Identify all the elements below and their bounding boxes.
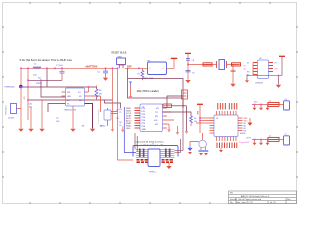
power +BATT T symbol <box>171 57 177 59</box>
connector J3 small <box>182 90 188 99</box>
capacitor C7 <box>61 68 63 80</box>
pin labels U2 left <box>126 108 132 130</box>
svg-text:Program MP: Program MP <box>239 142 250 144</box>
svg-text:TYPE-C: TYPE-C <box>149 171 157 173</box>
pins U3 left <box>253 63 258 75</box>
pin labels J2 right red <box>162 160 174 162</box>
resistor R12 <box>268 137 279 141</box>
resistor R2 <box>141 68 143 80</box>
wire JP1 to VCC <box>167 59 175 69</box>
wire row2 <box>252 139 284 141</box>
svg-text:C7 104: C7 104 <box>56 65 63 67</box>
pins U4 right <box>238 118 243 131</box>
power +3V3 T symbol <box>185 52 191 54</box>
power arrow pale 1 <box>112 103 114 129</box>
svg-text:1k: 1k <box>269 101 271 103</box>
sheet border frame <box>3 3 297 204</box>
diode D1 <box>129 82 132 86</box>
junction dot <box>105 68 107 70</box>
IC U4 MCU <box>214 115 238 137</box>
capacitor C9 <box>186 70 191 72</box>
ground <box>103 78 108 81</box>
wire Q2 left <box>190 142 199 146</box>
svg-text:UD-: UD- <box>243 68 247 70</box>
ground MCU bottom <box>220 148 222 150</box>
wire entries from U2 down <box>135 133 137 152</box>
svg-text:SWDIO: SWDIO <box>240 133 246 135</box>
wire vertical main left <box>20 68 22 128</box>
svg-text:2: 2 <box>163 68 164 70</box>
pins J2 right <box>160 150 175 158</box>
capacitor C10 <box>231 70 236 72</box>
junction dots left <box>20 68 63 101</box>
ground <box>90 129 95 132</box>
resistor R5 <box>163 104 172 108</box>
pin labels U4 bottom red <box>217 143 237 149</box>
ground <box>230 84 235 87</box>
svg-text:C7: C7 <box>285 134 287 136</box>
wire dark mid horizontal <box>105 100 121 108</box>
transistor Q1 <box>104 110 111 120</box>
pin names U2 inside <box>142 108 160 131</box>
IC U2 <box>140 104 163 132</box>
wire branch x48 <box>48 104 66 113</box>
svg-text:R2: R2 <box>138 74 140 76</box>
junction dot <box>88 86 90 88</box>
wires U4 left <box>196 118 210 123</box>
svg-text:V3: V3 <box>275 62 277 64</box>
svg-text:1M: 1M <box>99 93 102 95</box>
wire dark branch x41 <box>41 80 66 97</box>
grounds Q2 <box>199 153 203 155</box>
wire branch x47 <box>46 68 48 87</box>
svg-text:5V0: 5V0 <box>254 102 257 104</box>
svg-text:Sh.: Sh. <box>230 202 233 204</box>
pins U2 left <box>135 108 141 128</box>
wire vertical x117 <box>118 68 134 160</box>
junction dot <box>187 64 189 66</box>
wire dark net A horizontal <box>28 79 62 81</box>
svg-text:DC055: DC055 <box>8 118 15 120</box>
capacitor Cb <box>203 150 208 151</box>
svg-text:SI230: SI230 <box>100 125 106 127</box>
resistor R3 <box>95 87 98 99</box>
junction dot <box>138 68 140 70</box>
net labels U4 right <box>0 0 1 1</box>
crystal X1 <box>217 61 227 68</box>
svg-text:C6: C6 <box>285 99 287 101</box>
wire U2 gnd down right <box>167 124 169 130</box>
wire U1 gnd down <box>72 106 74 129</box>
svg-text:1: 1 <box>150 68 151 70</box>
svg-text:C8: C8 <box>192 60 194 62</box>
ground J2 <box>168 163 170 167</box>
junction dots <box>199 117 201 119</box>
svg-text:U4: U4 <box>216 118 218 120</box>
wire dark net B horizontal <box>21 86 97 88</box>
wire U3 bottom rail <box>247 57 282 85</box>
svg-text:PWRJACK: PWRJACK <box>5 105 8 115</box>
svg-text:GND: GND <box>67 96 72 98</box>
pin name smears vertical left <box>140 149 144 158</box>
junction dots <box>112 68 114 70</box>
svg-text:J2: J2 <box>152 144 154 146</box>
ground <box>18 129 23 132</box>
power arrow pale b <box>177 126 179 132</box>
ground <box>276 85 281 88</box>
node PWR05DC port <box>19 85 22 88</box>
ground <box>245 80 249 82</box>
wire top entries left <box>124 107 136 153</box>
wire vertical x31 <box>30 107 32 129</box>
connector J1 power jack <box>11 104 17 114</box>
wire crystal right <box>227 65 234 84</box>
ground <box>185 80 190 83</box>
power T symbol right <box>279 55 285 57</box>
wire top entries right <box>175 100 184 153</box>
title block <box>229 191 297 204</box>
red arrow marker <box>248 118 252 125</box>
inductor L1 <box>33 67 41 69</box>
wire note box outline <box>128 79 184 99</box>
svg-text:GND: GND <box>142 129 147 131</box>
pins U4 top <box>217 111 237 115</box>
wire Q2 top <box>202 133 204 140</box>
ground <box>39 129 44 132</box>
wire vertical x28 <box>27 68 29 120</box>
connector J2 outline <box>133 146 178 153</box>
op-amp U1 regulator <box>66 88 85 106</box>
grounds row2 <box>255 140 268 143</box>
svg-text:5 AU (5a 5a) 0.1A variant. Th: 5 AU (5a 5a) 0.1A variant. This is 15UF … <box>20 58 73 62</box>
resistor R11 <box>268 102 279 106</box>
pins J2 left <box>136 150 149 158</box>
svg-text:5 (wh) all 3.35 50/14.2+0.5ma: 5 (wh) all 3.35 50/14.2+0.5ma <box>135 141 165 143</box>
junction dot <box>278 75 280 77</box>
svg-text:ABILITY OF KiCad E.D.A. rev: ABILITY OF KiCad E.D.A. rev 5 <box>241 195 270 198</box>
resistor R9 <box>203 63 212 66</box>
wire +BATT main horizontal <box>21 67 118 69</box>
net labels col <box>119 109 122 127</box>
pin name smears vertical right <box>166 149 170 158</box>
svg-text:PWR: PWR <box>36 83 41 85</box>
svg-text:Size A4: Size A4 <box>230 198 238 201</box>
pin labels J2 left red <box>137 160 148 162</box>
grounds row1 <box>255 105 268 108</box>
svg-text:Title of Project sensor pcb: Title of Project sensor pcb <box>238 198 262 201</box>
ground <box>188 152 192 154</box>
svg-text:OUT1: OUT1 <box>246 137 251 139</box>
capacitor C12 <box>284 136 290 145</box>
wire vertical x112 <box>112 68 114 103</box>
wire vertical x42 <box>41 100 43 129</box>
pins U4 bottom <box>217 137 237 142</box>
wire Q2 bottom leads <box>201 147 205 150</box>
capacitor C11 <box>284 101 290 110</box>
pins U4 left <box>210 118 215 133</box>
ground <box>70 129 75 132</box>
svg-text:1k: 1k <box>269 136 271 138</box>
svg-text:ME6211C33: ME6211C33 <box>65 109 77 111</box>
net labels U3 left <box>243 62 250 76</box>
wire U2 right bus <box>163 106 192 131</box>
svg-text:Id: 1/1: Id: 1/1 <box>270 202 276 204</box>
wire net C horizontal <box>28 99 113 101</box>
pins U2 right <box>163 108 175 128</box>
power arrow pale a <box>167 130 171 133</box>
svg-text:R6: R6 <box>194 118 196 120</box>
transistor Q2 <box>199 140 207 148</box>
svg-text:RESET BULB: RESET BULB <box>112 52 127 55</box>
power arrow pale 2 <box>122 126 124 130</box>
power T symbol MCU <box>197 103 203 105</box>
resistor R6 <box>190 116 193 123</box>
wire U1 out up <box>88 87 90 92</box>
svg-text:GND: GND <box>126 128 131 130</box>
svg-text:C9: C9 <box>192 72 194 74</box>
wire U2 out up <box>167 96 183 108</box>
svg-text:UD+: UD+ <box>243 65 247 67</box>
svg-text:CH340N: CH340N <box>255 83 263 85</box>
wire row1 <box>252 104 284 106</box>
svg-text:PWR05DC: PWR05DC <box>5 87 16 89</box>
svg-text:Rev: Rev <box>287 199 291 201</box>
power arrow pale right <box>185 131 189 134</box>
connector J2 tongue <box>148 149 160 167</box>
svg-text:+BATT5V0: +BATT5V0 <box>85 65 98 68</box>
ground arrow blue <box>188 145 192 150</box>
svg-text:10k: 10k <box>194 121 197 123</box>
capacitor C8 <box>186 59 190 61</box>
svg-text:Date: June 29, 217: Date: June 29, 217 <box>236 201 254 204</box>
wire to JP1 <box>125 67 148 69</box>
capacitor C4 output <box>105 68 107 77</box>
wire U1 pin4 to gnd rail <box>85 104 93 129</box>
wire crystal row <box>188 64 217 66</box>
pins U3 right <box>269 63 274 72</box>
svg-text:Vo and sel catalog: Vo and sel catalog <box>97 109 100 124</box>
ground <box>28 129 33 132</box>
resistor R10 <box>232 63 241 66</box>
svg-text:100k (TBD in parallel): 100k (TBD in parallel) <box>137 90 159 93</box>
capacitor Ca <box>199 150 204 151</box>
net labels U3 right <box>275 62 279 70</box>
pin labels U4 top red <box>218 103 237 110</box>
